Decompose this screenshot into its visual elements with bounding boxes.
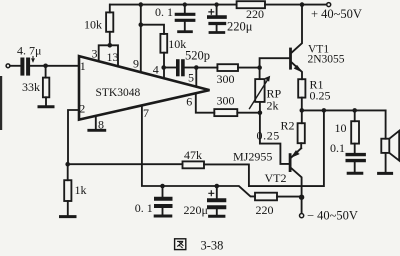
- svg-text:3-38: 3-38: [201, 239, 224, 253]
- svg-text:− 40~50V: − 40~50V: [307, 209, 358, 223]
- svg-text:0.25: 0.25: [257, 129, 280, 143]
- svg-text:4. 7μ: 4. 7μ: [17, 44, 41, 58]
- svg-text:3: 3: [92, 46, 98, 60]
- svg-text:8: 8: [98, 118, 104, 132]
- svg-text:0. 1: 0. 1: [135, 201, 153, 215]
- svg-text:220: 220: [246, 7, 264, 21]
- svg-text:+ 40~50V: + 40~50V: [311, 7, 362, 21]
- svg-text:1: 1: [80, 59, 86, 73]
- svg-text:0. 1: 0. 1: [155, 5, 173, 19]
- svg-text:5: 5: [188, 70, 194, 84]
- svg-text:VT2: VT2: [265, 171, 287, 185]
- svg-text:300: 300: [217, 72, 235, 86]
- svg-text:4: 4: [153, 62, 159, 76]
- svg-text:13: 13: [107, 50, 119, 64]
- svg-text:9: 9: [133, 57, 139, 71]
- svg-text:10: 10: [335, 121, 347, 135]
- svg-text:220μ: 220μ: [227, 20, 253, 34]
- svg-text:300: 300: [217, 94, 235, 108]
- svg-text:220μ: 220μ: [184, 203, 208, 217]
- svg-text:STK3048: STK3048: [96, 87, 141, 99]
- svg-text:2N3055: 2N3055: [308, 54, 345, 66]
- svg-text:MJ2955: MJ2955: [233, 150, 272, 164]
- svg-text:33k: 33k: [22, 80, 40, 94]
- svg-text:R2: R2: [281, 119, 295, 133]
- svg-text:2: 2: [79, 102, 85, 116]
- svg-text:10k: 10k: [84, 18, 102, 32]
- svg-text:1k: 1k: [75, 183, 87, 197]
- svg-text:6: 6: [186, 94, 192, 108]
- svg-text:0.25: 0.25: [310, 89, 331, 103]
- svg-text:0.1: 0.1: [330, 141, 345, 155]
- svg-text:47k: 47k: [184, 148, 202, 162]
- svg-text:520p: 520p: [185, 49, 210, 63]
- svg-text:220: 220: [256, 203, 274, 217]
- svg-text:2k: 2k: [267, 99, 279, 113]
- svg-text:7: 7: [143, 106, 149, 120]
- svg-text:10k: 10k: [168, 37, 186, 51]
